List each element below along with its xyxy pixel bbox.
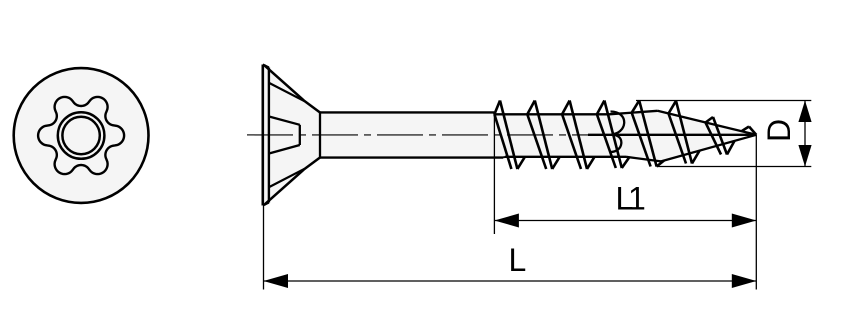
svg-text:D: D xyxy=(761,119,797,142)
svg-text:L: L xyxy=(509,242,527,278)
svg-text:L1: L1 xyxy=(616,181,646,217)
